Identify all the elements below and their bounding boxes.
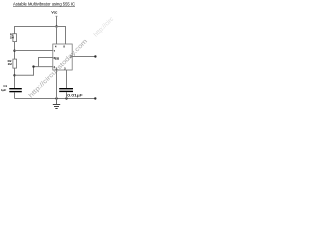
node R1/R2/pin7 junction (13, 50, 15, 52)
op-amp U1 555 IC box (53, 44, 72, 70)
wire top rail (15, 27, 66, 45)
title (13, 1, 75, 6)
svg-text:1M: 1M (8, 62, 13, 66)
wire left rail top (14, 26, 16, 34)
capacitor C2 0.01uF (59, 88, 73, 90)
wire pin 6 jog (39, 58, 53, 67)
capacitor C1 (9, 88, 21, 90)
node pin2 corner junction (32, 65, 34, 67)
svg-text:555: 555 (55, 56, 59, 60)
wire C2 bottom lead (66, 92, 68, 98)
title underline (13, 6, 75, 8)
svg-text:1M: 1M (10, 35, 15, 39)
wire C1 bottom lead (14, 92, 16, 98)
wire bottom rail (15, 98, 96, 100)
node gnd junction pin1 (55, 97, 57, 99)
node gnd junction cap (65, 97, 67, 99)
label C2 value 0.01uF (67, 92, 83, 97)
wire pin5 drop (66, 70, 68, 88)
label R2 (8, 59, 13, 66)
Vcc label (51, 9, 57, 14)
label R1 (10, 33, 15, 40)
svg-text:Astable Multivibrator using 55: Astable Multivibrator using 555 IC (13, 1, 75, 6)
resistor R1 (13, 34, 17, 42)
node Vcc terminal tick (56, 15, 58, 17)
wire R1 bottom lead (14, 42, 16, 60)
svg-text:1µF: 1µF (1, 88, 6, 92)
wire pin4 drop (56, 27, 58, 45)
wire Vcc stub (56, 16, 58, 27)
wire to pin 2 (15, 67, 53, 76)
watermark http://circuitstoday.com (27, 38, 89, 100)
wire pin 7 (15, 50, 53, 52)
svg-text:0.01µF: 0.01µF (67, 92, 83, 97)
node Vcc junction (55, 25, 57, 27)
wire pin1 drop (56, 70, 58, 99)
node output return terminal (94, 97, 96, 99)
node output terminal (94, 55, 96, 57)
pin labels (54, 46, 72, 71)
node R2 bottom junction (13, 74, 15, 76)
ground (53, 99, 60, 109)
wire pin 3 output (72, 56, 95, 58)
label 555 (55, 56, 59, 60)
resistor R2 (13, 59, 17, 68)
background (0, 0, 120, 119)
svg-text:Vcc: Vcc (51, 9, 57, 14)
wire R2 bottom lead (14, 68, 16, 88)
label C1 (1, 84, 8, 92)
